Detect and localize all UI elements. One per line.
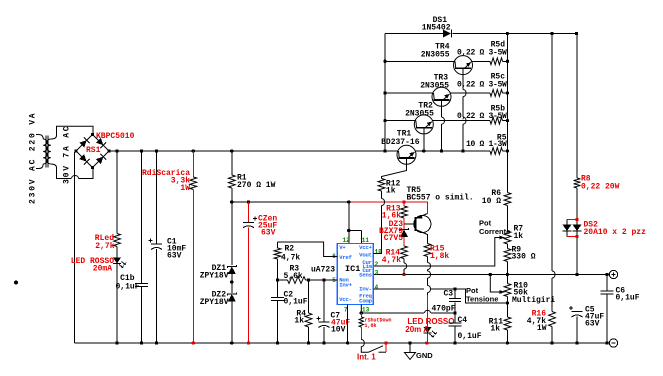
svg-text:1k: 1k bbox=[490, 325, 500, 334]
resistor R3 (series) bbox=[288, 277, 306, 284]
node R10 bottom / inv bbox=[506, 301, 509, 304]
svg-text:4,7k: 4,7k bbox=[382, 256, 401, 265]
svg-text:0,1uF: 0,1uF bbox=[616, 294, 640, 303]
wire minus from bridge to bottom rail bbox=[75, 151, 77, 343]
resistor R12 bbox=[378, 179, 385, 192]
wire shunt branch bbox=[576, 34, 578, 179]
svg-text:ZPY18V: ZPY18V bbox=[200, 298, 229, 307]
terminal - output bbox=[609, 339, 617, 347]
node emitter resistor bus bbox=[506, 60, 509, 63]
svg-text:2N3055: 2N3055 bbox=[420, 82, 449, 91]
svg-text:5,6k: 5,6k bbox=[284, 272, 303, 281]
node R1 bottom / V+ rail bbox=[230, 200, 233, 203]
wire vref pin6 to R2 bbox=[278, 242, 338, 257]
svg-text:10 Ω: 10 Ω bbox=[482, 197, 501, 206]
svg-text:63V: 63V bbox=[585, 320, 600, 329]
transistor TR1 bbox=[397, 145, 416, 164]
capacitor CZen bbox=[248, 202, 250, 222]
node DS2 taps bbox=[575, 218, 578, 221]
node bridge vertices bbox=[91, 133, 94, 136]
transistor TR3 bbox=[432, 87, 451, 106]
svg-text:BC557 o simil.: BC557 o simil. bbox=[407, 194, 474, 203]
svg-text:3: 3 bbox=[375, 269, 379, 276]
transistor TR2 bbox=[414, 115, 433, 134]
node between DZ1 DZ2 bbox=[230, 280, 233, 283]
svg-text:63V: 63V bbox=[167, 252, 182, 261]
resistor rShutDown bbox=[360, 313, 362, 317]
resistor R11 bbox=[507, 303, 509, 317]
svg-text:Corrente: Corrente bbox=[479, 227, 510, 236]
svg-text:Vcc+: Vcc+ bbox=[359, 244, 372, 251]
svg-text:20m A: 20m A bbox=[405, 325, 429, 334]
node bottom rail taps bbox=[115, 341, 118, 344]
node CZen tap bbox=[247, 200, 250, 203]
svg-text:Int. 1: Int. 1 bbox=[357, 353, 376, 362]
zener DZ1 bbox=[227, 265, 236, 268]
resistor R5b bbox=[490, 117, 503, 124]
resistor R5c bbox=[490, 90, 503, 97]
zener DZ3 bbox=[403, 224, 405, 230]
wire R15 down with hops bbox=[427, 257, 429, 263]
svg-text:30V 7A AC: 30V 7A AC bbox=[63, 125, 72, 184]
resistor R14 bbox=[401, 246, 408, 259]
op-amp regulator IC1 uA723 bbox=[337, 243, 373, 304]
resistor R5d bbox=[490, 58, 503, 65]
svg-text:63V: 63V bbox=[261, 229, 276, 238]
diode DS2b parallel branch bbox=[567, 219, 577, 221]
svg-text:C4: C4 bbox=[458, 316, 468, 325]
capacitor C3 bbox=[454, 289, 456, 298]
bridge rectifier RS1 bbox=[76, 135, 109, 168]
svg-text:4: 4 bbox=[375, 284, 379, 291]
resistor R5 bbox=[490, 148, 503, 155]
capacitor C6 bbox=[606, 275, 608, 292]
svg-text:Comp: Comp bbox=[359, 297, 372, 304]
svg-text:V+: V+ bbox=[339, 244, 346, 251]
svg-text:Vref: Vref bbox=[339, 254, 352, 261]
svg-text:470pF: 470pF bbox=[432, 305, 456, 314]
node base ties on TR1 emitter wire bbox=[422, 149, 425, 152]
svg-text:13: 13 bbox=[362, 307, 370, 314]
svg-text:IC1: IC1 bbox=[345, 264, 360, 274]
wire TR2 collector bbox=[385, 120, 416, 122]
wire right bus bbox=[507, 34, 509, 193]
svg-text:Inv+: Inv+ bbox=[339, 281, 352, 288]
resistor R16 bbox=[549, 312, 556, 327]
wire bottom rail bbox=[75, 342, 610, 344]
LED led2 rosso bbox=[424, 327, 432, 333]
svg-text:0,1uF: 0,1uF bbox=[458, 332, 482, 341]
svg-text:11: 11 bbox=[362, 237, 370, 244]
wire TR3 emitter bbox=[450, 92, 491, 94]
svg-text:0,22 20W: 0,22 20W bbox=[581, 183, 620, 192]
diode DS1 bbox=[443, 30, 451, 38]
wire non-inv pin5 bbox=[278, 279, 288, 281]
svg-text:2: 2 bbox=[375, 261, 379, 268]
resistor R4 bbox=[308, 280, 310, 313]
svg-text:330 Ω: 330 Ω bbox=[512, 253, 536, 262]
wire red V+ to R13/TR5 bbox=[404, 202, 428, 214]
svg-text:Vout: Vout bbox=[359, 252, 372, 259]
svg-text:BD237-16: BD237-16 bbox=[381, 138, 420, 147]
transistor TR4 bbox=[454, 56, 473, 75]
wire vout pin10 to R12 bbox=[373, 206, 381, 254]
wire TR4 emitter bbox=[471, 60, 490, 62]
svg-text:1W: 1W bbox=[537, 324, 547, 333]
capacitor C1 bbox=[156, 151, 158, 244]
svg-text:Inv-: Inv- bbox=[359, 285, 372, 292]
svg-text:10V: 10V bbox=[331, 326, 346, 335]
svg-text:C7V5: C7V5 bbox=[384, 234, 403, 243]
svg-text:0,22 Ω 3-5W: 0,22 Ω 3-5W bbox=[457, 81, 507, 90]
svg-text:2N3055: 2N3055 bbox=[405, 110, 434, 119]
capacitor C1b bbox=[141, 151, 143, 284]
wire IC V+ drop bbox=[348, 202, 350, 231]
svg-text:1,8k: 1,8k bbox=[430, 252, 449, 261]
svg-text:Sens: Sens bbox=[359, 271, 372, 278]
resistor R8 bbox=[574, 178, 581, 188]
svg-text:0,22 Ω 3-5W: 0,22 Ω 3-5W bbox=[457, 112, 507, 121]
svg-text:1W: 1W bbox=[180, 184, 190, 193]
svg-text:12: 12 bbox=[343, 237, 351, 244]
svg-text:Multigiri: Multigiri bbox=[512, 296, 555, 305]
wire R12 to TR1 base bbox=[382, 158, 407, 179]
capacitor C2 bbox=[277, 280, 279, 298]
wire TR3 collector bbox=[385, 92, 434, 94]
wire TR4 collector bbox=[385, 60, 455, 62]
svg-text:0,22 Ω 3-5W: 0,22 Ω 3-5W bbox=[457, 49, 507, 58]
svg-text:Vcc-: Vcc- bbox=[339, 296, 352, 303]
wire V+ rail to IC bbox=[232, 201, 349, 203]
svg-text:230V AC 220 VA: 230V AC 220 VA bbox=[29, 112, 38, 204]
resistor R15 bbox=[424, 244, 431, 257]
terminal + output bbox=[609, 270, 617, 278]
svg-text:1,8k: 1,8k bbox=[365, 323, 377, 329]
svg-text:1k: 1k bbox=[514, 232, 524, 241]
svg-text:1k: 1k bbox=[386, 187, 396, 196]
svg-text:2,7k: 2,7k bbox=[95, 242, 114, 251]
svg-text:10 Ω 1-3W: 10 Ω 1-3W bbox=[466, 140, 507, 149]
resistor R6 bbox=[504, 193, 511, 206]
svg-text:uA723: uA723 bbox=[311, 266, 335, 275]
svg-text:GND: GND bbox=[416, 351, 433, 360]
wire secondary bottom to bridge AC2 (hop over minus wire) bbox=[51, 164, 71, 179]
wire + output rail / cur sense bbox=[373, 274, 609, 276]
svg-text:2N3055: 2N3055 bbox=[421, 51, 450, 60]
transformer T1 bbox=[43, 139, 47, 164]
potentiometer R10 pot tensione bbox=[507, 275, 509, 284]
node R13 top bbox=[402, 200, 405, 203]
svg-text:1N5402: 1N5402 bbox=[422, 24, 451, 33]
wire raw + rail bbox=[109, 150, 398, 152]
node C7 tap bbox=[322, 278, 325, 281]
capacitor C4 bbox=[454, 313, 456, 323]
wire TR3 base down bbox=[441, 100, 443, 117]
wire TR2 emitter bbox=[432, 120, 490, 122]
wire R10 wiper to + rail bbox=[490, 275, 497, 293]
wire R16 branch (hop over + rail) bbox=[551, 34, 553, 272]
wire TR2 base down bbox=[423, 128, 425, 151]
svg-text:KBPC5010: KBPC5010 bbox=[96, 132, 135, 141]
svg-text:1k: 1k bbox=[294, 317, 304, 326]
wire freq comp pin13 bbox=[361, 305, 424, 313]
capacitor C5 bbox=[572, 311, 583, 313]
stray dot bbox=[14, 281, 18, 285]
transistor TR5 bbox=[414, 215, 431, 232]
zener DZ2 bbox=[227, 293, 236, 296]
resistor RdiScarica bbox=[192, 151, 194, 177]
wire R7 wiper to pin2 bbox=[498, 237, 505, 239]
wire TR4 base down bbox=[462, 68, 464, 89]
svg-text:4,7k: 4,7k bbox=[281, 254, 300, 263]
resistor R13 bbox=[403, 202, 405, 206]
svg-text:ZPY18V: ZPY18V bbox=[200, 272, 229, 281]
wire collector bus bbox=[384, 34, 386, 152]
svg-text:0,1uF: 0,1uF bbox=[284, 298, 308, 307]
resistor R2 bbox=[277, 242, 279, 248]
resistor R9 bbox=[504, 249, 511, 262]
ground bbox=[409, 343, 411, 353]
capacitor C7 bbox=[323, 280, 325, 322]
wire top rail bbox=[385, 33, 443, 35]
svg-text:270 Ω 1W: 270 Ω 1W bbox=[237, 181, 276, 190]
diode DS2a bbox=[573, 225, 582, 232]
wire cur lim pin2 hop at R14 line bbox=[404, 263, 407, 269]
wire secondary top to bridge AC1 bbox=[51, 126, 93, 139]
svg-text:0,1uF: 0,1uF bbox=[115, 283, 139, 292]
switch Int 1 bbox=[360, 339, 362, 342]
svg-text:C3: C3 bbox=[444, 290, 454, 299]
svg-text:RS1: RS1 bbox=[86, 146, 101, 155]
svg-text:R2: R2 bbox=[285, 245, 295, 254]
node R4 tap bbox=[307, 278, 310, 281]
node raw rail taps bbox=[115, 149, 118, 152]
node pin5 wire left bbox=[276, 278, 279, 281]
LED led1 rosso bbox=[113, 258, 121, 264]
resistor RLed bbox=[116, 151, 118, 234]
wire vcc- pin7 bbox=[347, 305, 349, 343]
svg-text:20A10 x 2 pzz: 20A10 x 2 pzz bbox=[584, 228, 647, 237]
svg-text:Tensione: Tensione bbox=[466, 295, 498, 304]
svg-text:20mA: 20mA bbox=[93, 265, 112, 274]
resistor R1 bbox=[231, 151, 233, 175]
wire inv pin4 bbox=[373, 288, 424, 290]
potentiometer R7 pot corrente bbox=[504, 231, 511, 244]
